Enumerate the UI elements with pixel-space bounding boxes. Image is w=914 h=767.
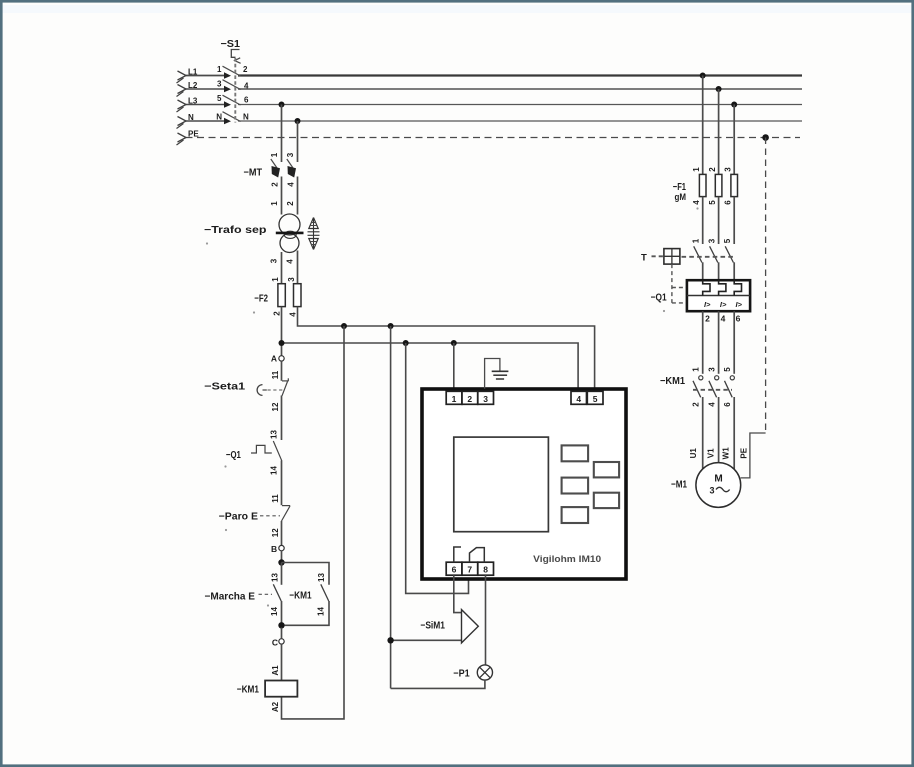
svg-text:3: 3 bbox=[707, 367, 716, 372]
svg-text:6: 6 bbox=[736, 314, 741, 324]
svg-text:5: 5 bbox=[708, 200, 717, 205]
svg-text:PE: PE bbox=[188, 130, 199, 139]
svg-text:2: 2 bbox=[705, 314, 710, 324]
svg-text:2: 2 bbox=[691, 402, 700, 407]
svg-text:3: 3 bbox=[483, 394, 488, 404]
svg-text:1: 1 bbox=[692, 238, 701, 243]
svg-text:14: 14 bbox=[270, 607, 279, 616]
svg-text:I>: I> bbox=[720, 300, 727, 309]
svg-text:2: 2 bbox=[708, 167, 717, 172]
svg-text:3: 3 bbox=[709, 486, 714, 496]
svg-text:I>: I> bbox=[704, 300, 711, 309]
svg-text:4: 4 bbox=[721, 314, 726, 324]
svg-text:3: 3 bbox=[708, 238, 717, 243]
svg-text:−Q1: −Q1 bbox=[651, 293, 667, 304]
svg-text:3: 3 bbox=[270, 258, 279, 263]
svg-text:C: C bbox=[272, 637, 278, 647]
svg-text:1: 1 bbox=[270, 152, 279, 157]
svg-text:A: A bbox=[271, 354, 277, 364]
svg-text:gM: gM bbox=[675, 192, 687, 202]
svg-text:I>: I> bbox=[735, 300, 742, 309]
svg-text:3: 3 bbox=[724, 167, 733, 172]
svg-text:−KM1: −KM1 bbox=[660, 376, 685, 387]
svg-text:1: 1 bbox=[691, 367, 700, 372]
svg-text:−Trafo sep: −Trafo sep bbox=[204, 225, 267, 236]
svg-text:N: N bbox=[216, 113, 222, 122]
svg-text:A2: A2 bbox=[271, 701, 280, 712]
svg-text:1: 1 bbox=[452, 394, 457, 404]
svg-text:14: 14 bbox=[317, 607, 326, 616]
svg-text:−F2: −F2 bbox=[254, 294, 268, 305]
svg-text:B: B bbox=[271, 544, 277, 554]
svg-text:14: 14 bbox=[270, 466, 279, 475]
svg-text:11: 11 bbox=[271, 370, 280, 379]
svg-text:U1: U1 bbox=[689, 448, 698, 459]
svg-text:7: 7 bbox=[467, 565, 472, 575]
svg-text:3: 3 bbox=[287, 277, 296, 282]
svg-text:−S1: −S1 bbox=[221, 39, 241, 50]
svg-text:3: 3 bbox=[217, 80, 222, 89]
svg-text:−KM1: −KM1 bbox=[289, 591, 312, 602]
svg-text:−Marcha E: −Marcha E bbox=[205, 592, 256, 603]
svg-text:5: 5 bbox=[723, 238, 732, 243]
svg-text:1: 1 bbox=[692, 167, 701, 172]
svg-text:3: 3 bbox=[286, 152, 295, 157]
svg-text:N: N bbox=[243, 113, 249, 122]
svg-text:6: 6 bbox=[723, 402, 732, 407]
svg-text:2: 2 bbox=[467, 394, 472, 404]
svg-text:1: 1 bbox=[270, 201, 279, 206]
svg-text:−KM1: −KM1 bbox=[237, 685, 260, 696]
svg-text:L3: L3 bbox=[188, 97, 198, 106]
svg-text:−Q1: −Q1 bbox=[226, 450, 241, 461]
svg-text:2: 2 bbox=[271, 182, 280, 187]
svg-text:2: 2 bbox=[243, 65, 248, 74]
svg-text:2: 2 bbox=[286, 201, 295, 206]
svg-text:−Seta1: −Seta1 bbox=[204, 382, 246, 393]
svg-text:6: 6 bbox=[244, 96, 249, 105]
svg-text:−Paro E: −Paro E bbox=[219, 512, 259, 523]
svg-text:1: 1 bbox=[217, 65, 222, 74]
svg-text:V1: V1 bbox=[707, 448, 716, 458]
svg-text:M: M bbox=[714, 474, 722, 485]
svg-text:L1: L1 bbox=[188, 68, 198, 77]
svg-text:4: 4 bbox=[244, 82, 249, 91]
svg-text:13: 13 bbox=[270, 430, 279, 439]
svg-text:4: 4 bbox=[286, 259, 295, 264]
svg-text:6: 6 bbox=[452, 565, 457, 575]
svg-text:4: 4 bbox=[692, 200, 701, 205]
svg-text:Vigilohm IM10: Vigilohm IM10 bbox=[533, 554, 601, 565]
svg-text:A1: A1 bbox=[271, 665, 280, 676]
svg-text:2: 2 bbox=[273, 311, 282, 316]
svg-text:6: 6 bbox=[724, 200, 733, 205]
svg-text:5: 5 bbox=[217, 94, 222, 103]
svg-text:4: 4 bbox=[289, 312, 298, 317]
svg-text:−P1: −P1 bbox=[453, 669, 470, 680]
svg-text:−M1: −M1 bbox=[671, 480, 687, 491]
svg-text:N: N bbox=[188, 113, 194, 122]
svg-text:W1: W1 bbox=[722, 447, 731, 460]
svg-text:5: 5 bbox=[723, 367, 732, 372]
svg-text:−MT: −MT bbox=[244, 168, 263, 179]
svg-text:4: 4 bbox=[707, 402, 716, 407]
svg-text:L2: L2 bbox=[188, 81, 198, 90]
svg-text:4: 4 bbox=[287, 182, 296, 187]
svg-text:PE: PE bbox=[739, 447, 748, 458]
svg-text:13: 13 bbox=[271, 573, 280, 582]
svg-text:1: 1 bbox=[271, 277, 280, 282]
svg-text:12: 12 bbox=[271, 402, 280, 411]
svg-text:8: 8 bbox=[483, 565, 488, 575]
svg-text:T: T bbox=[641, 253, 647, 264]
svg-text:13: 13 bbox=[317, 573, 326, 582]
svg-text:11: 11 bbox=[271, 494, 280, 503]
svg-text:5: 5 bbox=[593, 394, 598, 404]
svg-text:4: 4 bbox=[576, 394, 581, 404]
svg-text:−SiM1: −SiM1 bbox=[420, 621, 445, 632]
svg-text:12: 12 bbox=[271, 528, 280, 537]
